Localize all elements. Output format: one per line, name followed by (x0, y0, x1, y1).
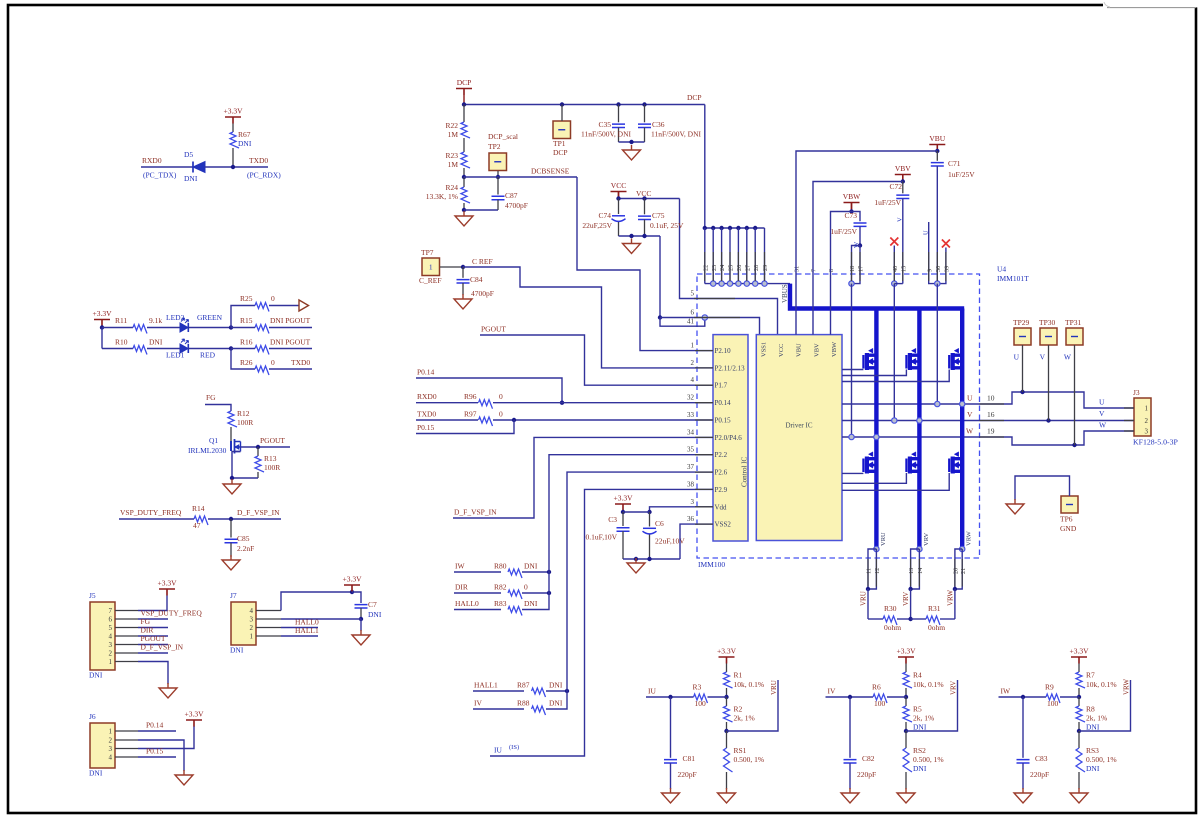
svg-text:30: 30 (935, 266, 942, 272)
wire DCP rail (464, 104, 705, 106)
wire C_REF to pin2 (463, 267, 713, 368)
svg-text:LED1: LED1 (166, 351, 185, 360)
svg-text:37: 37 (687, 463, 695, 471)
svg-text:P0.14: P0.14 (146, 721, 164, 730)
resistor R13 (257, 447, 259, 456)
svg-text:18: 18 (849, 266, 856, 272)
no-connect pin 39 (942, 240, 950, 248)
svg-text:220pF: 220pF (678, 770, 697, 779)
svg-text:1uF/25V: 1uF/25V (874, 198, 901, 207)
svg-text:1M: 1M (448, 130, 459, 139)
svg-text:0ohm: 0ohm (884, 623, 901, 632)
IC Driver IC (756, 335, 842, 541)
svg-text:33: 33 (687, 411, 695, 419)
svg-text:2.2nF: 2.2nF (237, 544, 254, 553)
svg-text:DNI: DNI (1086, 723, 1100, 732)
svg-text:VBV: VBV (814, 343, 821, 357)
svg-text:3: 3 (1145, 428, 1149, 436)
svg-text:27: 27 (744, 265, 751, 271)
svg-text:IU: IU (648, 687, 656, 696)
ground (627, 558, 645, 573)
thick rail U (874, 309, 878, 550)
svg-text:36: 36 (687, 515, 695, 523)
wire gate low V (842, 473, 906, 483)
wire VRW loop (1079, 680, 1131, 731)
svg-text:C72: C72 (889, 182, 902, 191)
capacitor C81 (670, 697, 672, 758)
node DCBSENSE (462, 175, 466, 179)
node +3.3V junction (100, 325, 104, 329)
svg-text:2: 2 (250, 624, 254, 632)
svg-text:DCP: DCP (553, 148, 568, 157)
off-sheet arrow (299, 300, 309, 311)
svg-text:HALL0: HALL0 (455, 599, 479, 608)
svg-text:Vdd: Vdd (715, 503, 728, 511)
resistor R23 (463, 138, 465, 152)
ground (360, 619, 362, 631)
svg-text:2: 2 (109, 650, 113, 658)
ground (1006, 499, 1024, 514)
svg-text:VRW: VRW (1123, 679, 1131, 695)
svg-text:1uF/25V: 1uF/25V (830, 227, 857, 236)
svg-text:J7: J7 (230, 591, 237, 600)
wire (205, 405, 231, 412)
svg-text:PGOUT: PGOUT (260, 436, 285, 445)
svg-text:0: 0 (499, 392, 503, 401)
svg-text:C3: C3 (608, 515, 617, 524)
svg-text:C73: C73 (844, 211, 857, 220)
svg-text:1: 1 (429, 263, 433, 272)
svg-text:C85: C85 (237, 534, 250, 543)
svg-text:100R: 100R (237, 418, 253, 427)
svg-text:VRV: VRV (902, 592, 910, 606)
svg-text:VBU: VBU (929, 134, 945, 143)
svg-text:16: 16 (987, 410, 995, 419)
svg-text:C74: C74 (598, 211, 611, 220)
svg-text:10k, 0.1%: 10k, 0.1% (913, 680, 944, 689)
svg-text:P0.14: P0.14 (715, 399, 732, 407)
svg-text:C82: C82 (862, 754, 875, 763)
svg-text:P2.0/P4.6: P2.0/P4.6 (715, 434, 743, 442)
svg-text:R11: R11 (115, 316, 127, 325)
svg-text:D5: D5 (184, 150, 193, 159)
svg-text:U4: U4 (997, 265, 1006, 274)
wire TP6 to ground (1015, 476, 1070, 500)
wire P0.15 (138, 756, 176, 758)
svg-text:Q1: Q1 (209, 436, 218, 445)
wire (101, 328, 103, 349)
svg-text:V: V (1099, 409, 1105, 418)
svg-text:220pF: 220pF (857, 770, 876, 779)
ground (841, 788, 859, 803)
LED2 green (180, 323, 188, 332)
wire D_F_VSP_IN (138, 652, 168, 654)
wire VSS2 pin36 (680, 524, 713, 559)
resistor R3 (646, 696, 694, 698)
ground (1070, 788, 1088, 803)
ground (897, 788, 915, 803)
ground (222, 555, 240, 570)
svg-text:+3.3V: +3.3V (717, 647, 737, 656)
resistor RS2 (905, 731, 907, 748)
svg-text:GND: GND (1060, 524, 1077, 533)
svg-text:V: V (1040, 353, 1046, 362)
svg-text:DNI: DNI (913, 764, 927, 773)
svg-text:C83: C83 (1035, 754, 1048, 763)
svg-text:DNI: DNI (524, 562, 538, 571)
svg-text:R8: R8 (1086, 705, 1095, 714)
svg-text:6: 6 (109, 616, 113, 624)
svg-text:4700pF: 4700pF (505, 201, 528, 210)
svg-text:0.1uF, 25V: 0.1uF, 25V (650, 221, 684, 230)
resistor R15 (255, 325, 269, 334)
svg-text:R13: R13 (264, 454, 277, 463)
connector J6 (90, 723, 115, 768)
svg-text:0.1uF,10V: 0.1uF,10V (586, 533, 618, 542)
svg-text:IRLML2030: IRLML2030 (188, 446, 227, 455)
wire DIR (138, 635, 168, 637)
svg-text:R80: R80 (494, 562, 507, 571)
resistor R26 (231, 349, 255, 370)
wire to VBUS (705, 283, 790, 285)
svg-text:GREEN: GREEN (197, 313, 223, 322)
resistor R24 (463, 177, 465, 187)
svg-text:R9: R9 (1045, 683, 1054, 692)
svg-text:2: 2 (691, 359, 695, 367)
capacitor C83 (1022, 697, 1024, 758)
svg-text:DCP: DCP (457, 78, 472, 87)
svg-text:1: 1 (250, 633, 254, 641)
resistor R6 (826, 696, 874, 698)
svg-text:DNI: DNI (524, 599, 538, 608)
svg-text:10k, 0.1%: 10k, 0.1% (1086, 680, 1117, 689)
svg-text:RS1: RS1 (734, 746, 747, 755)
svg-text:HALL1: HALL1 (295, 626, 319, 635)
svg-text:TXD0: TXD0 (249, 156, 268, 165)
svg-text:0ohm: 0ohm (928, 623, 945, 632)
wire (619, 235, 661, 237)
svg-text:DIR: DIR (455, 583, 468, 592)
wire phase W row (842, 436, 980, 438)
IC U4 IMM101T dashed boundary (697, 274, 980, 558)
wire VSU (936, 284, 938, 404)
svg-text:D_F_VSP_IN: D_F_VSP_IN (237, 508, 280, 517)
svg-text:R96: R96 (464, 392, 477, 401)
resistor R25 (231, 306, 255, 328)
svg-text:R5: R5 (913, 705, 922, 714)
svg-text:W: W (966, 427, 974, 436)
svg-text:35: 35 (687, 446, 695, 454)
svg-text:RXD0: RXD0 (417, 392, 437, 401)
svg-text:7: 7 (109, 607, 113, 615)
svg-text:47: 47 (193, 521, 201, 530)
wire VRU loop (727, 680, 779, 731)
svg-text:6: 6 (691, 309, 695, 317)
VBUS thick bus (790, 284, 964, 309)
capacitor C84 (462, 267, 464, 278)
svg-text:3: 3 (691, 498, 695, 506)
svg-text:R12: R12 (237, 409, 250, 418)
svg-text:R6: R6 (872, 683, 881, 692)
wire HALL0 (281, 627, 318, 629)
svg-text:7: 7 (811, 269, 818, 272)
transistor low-side U (863, 452, 876, 474)
svg-text:(PC_TDX): (PC_TDX) (143, 171, 177, 180)
svg-text:R25: R25 (240, 294, 253, 303)
svg-text:8: 8 (828, 269, 835, 272)
svg-text:R26: R26 (240, 358, 253, 367)
wire gate high U (842, 369, 863, 371)
thick rail W (960, 309, 964, 550)
svg-text:VRW: VRW (946, 590, 954, 606)
svg-text:V: V (897, 217, 904, 222)
capacitor C74 (618, 199, 620, 215)
svg-text:VBV: VBV (895, 164, 911, 173)
capacitor C75 (644, 199, 646, 215)
svg-text:C87: C87 (505, 191, 518, 200)
wire gate high W (842, 370, 949, 382)
thick rail V (917, 309, 921, 550)
svg-text:+3.3V: +3.3V (92, 309, 112, 318)
svg-text:TXD0: TXD0 (417, 409, 436, 418)
svg-text:9: 9 (926, 269, 933, 272)
svg-text:TP31: TP31 (1065, 318, 1082, 327)
ground (1014, 788, 1032, 803)
wire (464, 209, 498, 211)
svg-text:DCBSENSE: DCBSENSE (531, 167, 570, 176)
svg-text:40: 40 (892, 266, 899, 272)
svg-text:(PC_RDX): (PC_RDX) (247, 171, 281, 180)
svg-text:+3.3V: +3.3V (896, 647, 916, 656)
svg-text:TXD0: TXD0 (291, 358, 310, 367)
svg-text:1M: 1M (448, 160, 459, 169)
svg-text:VCC: VCC (611, 181, 626, 190)
wire pin 22 (704, 228, 706, 284)
resistor RS1 (726, 731, 728, 748)
svg-text:25: 25 (728, 265, 735, 271)
capacitor C6 (649, 512, 651, 527)
svg-text:P0.15: P0.15 (417, 423, 435, 432)
capacitor C71 (936, 151, 938, 161)
wire VSS to pin6 (659, 236, 661, 318)
svg-text:VRU: VRU (860, 591, 868, 606)
svg-text:0: 0 (271, 358, 275, 367)
wire J7 pin4 to +3.3V (281, 592, 352, 611)
svg-text:W: W (853, 241, 860, 248)
diode D5 (192, 162, 194, 173)
svg-text:23: 23 (711, 265, 718, 271)
svg-text:0: 0 (499, 409, 503, 418)
resistor R2 (726, 697, 728, 706)
svg-text:C75: C75 (652, 211, 665, 220)
wire W output (980, 431, 1135, 445)
svg-text:RS2: RS2 (913, 746, 926, 755)
svg-text:R31: R31 (928, 604, 941, 613)
svg-text:11nF/500V, DNI: 11nF/500V, DNI (581, 130, 632, 139)
resistor R31 (911, 618, 926, 620)
svg-text:0: 0 (271, 294, 275, 303)
svg-text:1uF/25V: 1uF/25V (948, 170, 975, 179)
capacitor C3 (622, 512, 624, 526)
ground (662, 788, 680, 803)
transistor low-side V (906, 452, 919, 474)
svg-text:1: 1 (109, 658, 113, 666)
svg-text:0: 0 (524, 583, 528, 592)
wire (205, 166, 268, 168)
svg-text:W: W (1064, 353, 1072, 362)
svg-text:DNI: DNI (230, 646, 244, 655)
wire to pin35 (549, 455, 713, 572)
svg-text:VRU: VRU (880, 532, 887, 546)
svg-text:2: 2 (1145, 417, 1149, 425)
svg-text:IW: IW (1001, 687, 1011, 696)
ground (159, 683, 177, 698)
node VSV/V (892, 418, 897, 423)
svg-text:39: 39 (944, 266, 951, 272)
LED1 red (147, 348, 180, 350)
wire pin 28 (754, 228, 756, 284)
svg-text:R30: R30 (884, 604, 897, 613)
svg-text:PGOUT: PGOUT (481, 325, 506, 334)
svg-text:R15: R15 (240, 316, 253, 325)
resistor R22 (463, 105, 465, 123)
wire pin 25 (729, 228, 731, 284)
resistor RS3 (1078, 731, 1080, 748)
svg-text:100: 100 (1047, 699, 1059, 708)
wire V output (980, 420, 1135, 422)
ground (718, 788, 736, 803)
svg-text:DNI PGOUT: DNI PGOUT (270, 316, 311, 325)
transistor low-side W (949, 452, 962, 474)
svg-text:VBUS: VBUS (781, 284, 789, 303)
svg-text:C REF: C REF (472, 257, 493, 266)
svg-text:DNI: DNI (89, 769, 103, 778)
node VSW/W (849, 434, 854, 439)
svg-text:C84: C84 (470, 275, 483, 284)
svg-text:26: 26 (736, 265, 743, 271)
svg-text:R97: R97 (464, 409, 477, 418)
svg-text:DNI: DNI (89, 671, 103, 680)
svg-text:R83: R83 (494, 599, 507, 608)
ground (623, 239, 641, 254)
svg-text:28: 28 (753, 265, 760, 271)
node VSU/U (935, 401, 940, 406)
svg-text:4: 4 (109, 633, 113, 641)
svg-text:P0.15: P0.15 (146, 747, 164, 756)
wire VBU to driver (796, 151, 937, 335)
svg-text:34: 34 (687, 428, 695, 436)
svg-text:DNI PGOUT: DNI PGOUT (270, 338, 311, 347)
svg-text:+3.3V: +3.3V (223, 107, 243, 116)
svg-text:R14: R14 (192, 504, 205, 513)
svg-text:U: U (1014, 353, 1020, 362)
wire shunt leg VRU (874, 546, 879, 551)
svg-text:TP1: TP1 (553, 139, 566, 148)
wire pin 29 (764, 228, 766, 284)
svg-text:DNI: DNI (238, 139, 252, 148)
no-connect pin 40 (890, 238, 898, 246)
transistor high-side W (949, 348, 962, 370)
wire pin 24 (721, 228, 723, 284)
wire pin6/41 loop (658, 315, 662, 319)
svg-text:J5: J5 (89, 591, 96, 600)
svg-text:P2.6: P2.6 (715, 469, 728, 477)
svg-text:VBW: VBW (831, 341, 838, 357)
svg-text:20: 20 (953, 568, 960, 574)
svg-text:2: 2 (109, 737, 113, 745)
transistor high-side V (906, 348, 919, 370)
svg-text:(IS): (IS) (509, 744, 519, 751)
capacitor C87 (497, 177, 499, 195)
svg-text:22uF,25V: 22uF,25V (582, 221, 612, 230)
svg-text:TP7: TP7 (421, 248, 434, 257)
svg-text:R1: R1 (734, 671, 743, 680)
svg-text:C6: C6 (655, 519, 664, 528)
svg-text:Control IC: Control IC (741, 457, 749, 487)
wire U output (980, 392, 1135, 408)
wire pin 27 (746, 228, 748, 284)
resistor R67 (232, 124, 234, 133)
capacitor C73 (852, 212, 861, 222)
svg-text:29: 29 (762, 265, 769, 271)
svg-text:3: 3 (250, 616, 254, 624)
svg-text:DNI: DNI (913, 723, 927, 732)
wire Vdd pin3 (650, 507, 714, 512)
resistor R7 (1076, 672, 1085, 688)
wire (188, 348, 231, 350)
svg-text:38: 38 (687, 480, 695, 488)
wire gate low W (842, 473, 949, 490)
svg-text:R22: R22 (445, 121, 458, 130)
wire shunt leg VRV (917, 546, 922, 551)
capacitor C35 (618, 105, 620, 123)
capacitor C85 (230, 519, 232, 538)
svg-text:TP29: TP29 (1013, 318, 1030, 327)
svg-text:IV: IV (474, 699, 482, 708)
resistor R8 (1078, 697, 1080, 706)
svg-text:15: 15 (900, 266, 907, 272)
capacitor C7 (355, 605, 368, 608)
transistor Q1 (231, 439, 241, 454)
wire net U stub (929, 222, 938, 284)
svg-text:R88: R88 (517, 699, 530, 708)
svg-text:R16: R16 (240, 338, 253, 347)
svg-text:P0.15: P0.15 (715, 417, 732, 425)
svg-text:RED: RED (200, 351, 216, 360)
svg-text:41: 41 (687, 318, 695, 326)
svg-text:U: U (923, 230, 930, 235)
svg-text:4: 4 (250, 607, 254, 615)
svg-text:C36: C36 (652, 120, 665, 129)
svg-text:R3: R3 (693, 683, 702, 692)
svg-text:IW: IW (455, 562, 465, 571)
wire PGOUT (138, 644, 168, 646)
resistor R16 (255, 346, 269, 355)
svg-text:LED2: LED2 (166, 313, 185, 322)
wire VSV (893, 284, 895, 421)
svg-text:R67: R67 (238, 130, 251, 139)
wire J6 pin3 to +3.3V (138, 726, 194, 749)
svg-text:V: V (967, 410, 973, 419)
IC Control IC (713, 335, 748, 541)
svg-text:TP6: TP6 (1060, 515, 1073, 524)
svg-text:R82: R82 (494, 583, 507, 592)
svg-text:DNI: DNI (149, 338, 163, 347)
wire to pin37 (567, 472, 713, 691)
svg-text:VSP_DUTY_FREQ: VSP_DUTY_FREQ (120, 508, 182, 517)
svg-text:TP30: TP30 (1039, 318, 1056, 327)
ground (223, 479, 241, 494)
